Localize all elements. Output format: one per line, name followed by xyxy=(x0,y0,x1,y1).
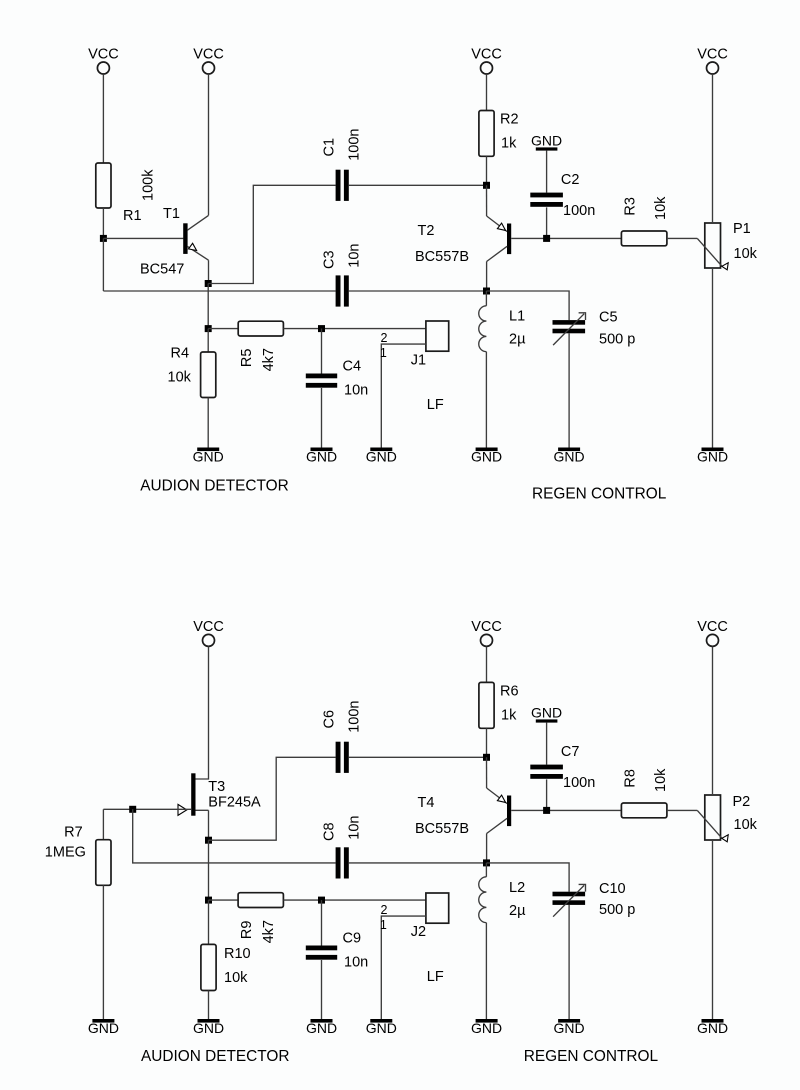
wire P2 bottom to ground xyxy=(712,840,714,1019)
svg-text:10k: 10k xyxy=(734,246,758,262)
svg-text:BC557B: BC557B xyxy=(415,821,469,837)
wire J2 pin 1 to ground xyxy=(381,916,426,1019)
svg-text:500 p: 500 p xyxy=(599,332,635,348)
svg-text:T3: T3 xyxy=(208,779,225,795)
capacitor C8 10n xyxy=(321,815,362,878)
svg-text:10n: 10n xyxy=(347,815,363,839)
variable capacitor C5 500 p xyxy=(553,310,636,348)
wire gate node down to C8 row xyxy=(133,809,336,863)
ground GND (C4) xyxy=(306,448,337,465)
wire source node to C6 riser xyxy=(209,757,336,840)
potentiometer P2 10k xyxy=(697,794,757,842)
power symbol VCC5 (T3 drain column) VCC xyxy=(193,619,224,647)
wire R10 top xyxy=(208,900,210,944)
wire T1 base xyxy=(103,237,183,239)
wire R7 bottom to ground xyxy=(102,885,104,1019)
svg-text:VCC: VCC xyxy=(471,619,502,635)
wire T3 gate row xyxy=(103,808,191,810)
power symbol VCC7 (P2 column) VCC xyxy=(697,619,728,647)
transistor T1 BC547 NPN xyxy=(140,206,209,278)
wire C5 bottom to ground xyxy=(568,333,570,447)
inductor L1 2µ xyxy=(479,306,526,352)
wire P1 bottom to ground xyxy=(712,268,714,448)
svg-text:VCC: VCC xyxy=(697,619,728,635)
wire C6 to R6 node xyxy=(349,756,487,758)
svg-text:C6: C6 xyxy=(321,710,337,729)
junction node R9/C9 xyxy=(318,897,325,904)
wire GND bar to C2 xyxy=(546,151,548,193)
wire VCC4 to P1 top xyxy=(712,74,714,223)
capacitor C6 100n xyxy=(321,701,362,773)
svg-text:C3: C3 xyxy=(321,250,337,269)
svg-text:AUDION DETECTOR: AUDION DETECTOR xyxy=(141,1048,290,1065)
svg-text:GND: GND xyxy=(554,1020,585,1036)
svg-text:2µ: 2µ xyxy=(509,332,526,348)
svg-text:GND: GND xyxy=(366,1020,397,1036)
wire node to R5 xyxy=(208,328,238,330)
svg-text:R1: R1 xyxy=(123,208,142,224)
svg-text:100n: 100n xyxy=(347,701,363,733)
svg-text:10k: 10k xyxy=(653,768,669,792)
junction gate node xyxy=(129,806,136,813)
ground GND (C9) xyxy=(306,1019,337,1036)
svg-text:1k: 1k xyxy=(501,708,517,724)
svg-text:C2: C2 xyxy=(561,172,580,188)
wire GND bar to C7 xyxy=(546,723,548,765)
junction node C7/base row xyxy=(543,807,550,814)
svg-text:BF245A: BF245A xyxy=(208,795,261,811)
wire C4 bottom to ground xyxy=(321,388,323,448)
resistor R10 10k xyxy=(201,944,251,990)
wire C8 to T4 collector node xyxy=(349,862,487,864)
wire C3 row left segment (base node to C3) xyxy=(103,290,335,292)
wire R9 to J2 pin 2 xyxy=(283,899,426,901)
svg-text:VCC: VCC xyxy=(88,46,119,62)
wire R5 to J1 pin 2 xyxy=(283,328,426,330)
svg-text:1: 1 xyxy=(380,346,387,360)
ground GND (C10) xyxy=(554,1019,585,1036)
power symbol VCC2 (T1 collector column) VCC xyxy=(193,46,224,74)
svg-text:GND: GND xyxy=(471,448,502,464)
ground GND (P2) xyxy=(697,1019,728,1036)
svg-text:C9: C9 xyxy=(343,931,362,947)
svg-text:100n: 100n xyxy=(347,129,363,161)
svg-text:VCC: VCC xyxy=(193,46,224,62)
ground GND (R7) xyxy=(88,1019,119,1036)
capacitor C7 100n xyxy=(530,744,595,791)
resistor R7 1MEG xyxy=(45,825,111,886)
svg-text:2: 2 xyxy=(381,331,388,345)
junction node R6/C6/T4 emitter xyxy=(483,754,490,761)
svg-text:R6: R6 xyxy=(500,684,519,700)
svg-text:P1: P1 xyxy=(733,221,751,237)
wire J1 pin 1 to ground xyxy=(381,344,426,447)
capacitor C9 10n xyxy=(306,931,368,971)
svg-text:4k7: 4k7 xyxy=(261,920,277,943)
junction node C2/base row xyxy=(543,235,550,242)
ground symbol GND above C2 (above capacitor) xyxy=(531,132,562,150)
resistor R1 100k xyxy=(96,163,157,224)
svg-text:R8: R8 xyxy=(623,769,639,788)
resistor R3 10k xyxy=(621,196,669,246)
wire R3 to P1 wiper xyxy=(667,237,697,239)
wire gate node to R7 xyxy=(102,809,104,839)
junction T2 collector node / L1 / C5 row xyxy=(483,288,490,295)
capacitor C1 100n xyxy=(321,129,362,201)
resistor R9 4k7 xyxy=(238,893,283,944)
svg-text:VCC: VCC xyxy=(471,46,502,62)
svg-text:10n: 10n xyxy=(344,383,368,399)
svg-text:10k: 10k xyxy=(734,817,758,833)
svg-text:L2: L2 xyxy=(509,880,525,896)
wire R2 bottom to node xyxy=(486,156,488,185)
capacitor C4 10n xyxy=(306,359,368,399)
wire emitter node down to R4/R5 node xyxy=(207,284,209,329)
svg-text:R2: R2 xyxy=(500,112,519,128)
wire T1 emitter to junction xyxy=(208,260,210,283)
wire R1 bottom to base node xyxy=(102,208,104,238)
connector J1 xyxy=(411,321,449,368)
svg-text:10k: 10k xyxy=(653,196,669,220)
svg-text:R9: R9 xyxy=(239,921,255,940)
svg-text:C10: C10 xyxy=(599,881,626,897)
ground GND (L2) xyxy=(471,1019,502,1036)
svg-text:2: 2 xyxy=(381,903,388,917)
transistor T4 BC557B PNP xyxy=(415,757,511,863)
svg-text:GND: GND xyxy=(697,1020,728,1036)
ground GND (J2 pin1) xyxy=(366,1019,397,1036)
junction node R5/C4 xyxy=(318,325,325,332)
svg-text:J2: J2 xyxy=(411,924,426,940)
inductor L2 2µ xyxy=(479,877,526,923)
wire collector node to C10 riser xyxy=(487,863,570,892)
transistor T3 BF245A JFET xyxy=(178,773,261,815)
wire T4 base row xyxy=(511,809,621,811)
wire collector node to C5 riser xyxy=(487,291,570,320)
wire C3 to T2 collector node xyxy=(349,290,487,292)
svg-text:T4: T4 xyxy=(418,795,435,811)
svg-text:4k7: 4k7 xyxy=(261,348,277,371)
svg-text:100n: 100n xyxy=(563,775,595,791)
svg-text:10k: 10k xyxy=(224,970,248,986)
ground GND (C5) xyxy=(554,448,585,465)
wire L2 bottom to ground xyxy=(485,923,487,1019)
wire source node down to R9/R10 node xyxy=(208,840,210,900)
svg-text:R7: R7 xyxy=(64,825,83,841)
wire C9 bottom to ground xyxy=(321,960,323,1019)
svg-text:GND: GND xyxy=(471,1020,502,1036)
junction T1 emitter node xyxy=(205,280,212,287)
junction node R4/R5 xyxy=(205,325,212,332)
svg-text:1k: 1k xyxy=(501,136,517,152)
wire node to R9 xyxy=(209,899,239,901)
ground symbol GND above C7 (above capacitor) xyxy=(531,704,562,722)
wire R4 bottom to ground xyxy=(207,398,209,448)
svg-text:VCC: VCC xyxy=(697,46,728,62)
svg-text:T2: T2 xyxy=(418,223,435,239)
svg-text:R5: R5 xyxy=(239,349,255,368)
wire C4 top xyxy=(321,329,323,374)
wire emitter node to C1 riser xyxy=(208,185,335,283)
svg-text:T1: T1 xyxy=(163,206,180,222)
resistor R6 1k xyxy=(479,682,519,728)
wire C7 bottom to base row xyxy=(546,779,548,810)
wire R10 bottom to ground xyxy=(208,991,210,1020)
wire VCC7 to P2 top xyxy=(712,647,714,796)
svg-text:GND: GND xyxy=(193,448,224,464)
svg-text:500 p: 500 p xyxy=(599,902,635,918)
svg-text:GND: GND xyxy=(193,1020,224,1036)
wire C1 to R2 node xyxy=(349,184,487,186)
svg-text:REGEN CONTROL: REGEN CONTROL xyxy=(532,486,667,503)
wire VCC1 to R1 top xyxy=(102,74,104,163)
svg-text:AUDION DETECTOR: AUDION DETECTOR xyxy=(140,477,289,494)
svg-text:GND: GND xyxy=(366,448,397,464)
svg-text:C1: C1 xyxy=(321,138,337,157)
wire C10 bottom to ground xyxy=(568,905,570,1019)
svg-text:GND: GND xyxy=(697,448,728,464)
capacitor C2 100n xyxy=(530,172,595,219)
svg-text:L1: L1 xyxy=(509,308,525,324)
junction node R2/C1/T2 emitter xyxy=(483,182,490,189)
wire R6 bottom to node xyxy=(486,728,488,757)
wire VCC6 to R6 xyxy=(486,647,488,683)
svg-text:C7: C7 xyxy=(561,744,580,760)
wire R4 top xyxy=(207,329,209,352)
variable capacitor C10 500 p xyxy=(553,881,636,918)
svg-text:100n: 100n xyxy=(563,203,595,219)
svg-text:R10: R10 xyxy=(224,946,251,962)
ground GND (R10) xyxy=(193,1019,224,1036)
wire base node down to C3 row xyxy=(102,238,104,291)
svg-text:GND: GND xyxy=(306,1020,337,1036)
svg-text:REGEN CONTROL: REGEN CONTROL xyxy=(524,1048,659,1065)
ground GND (J1 pin1) xyxy=(366,448,397,465)
svg-text:C5: C5 xyxy=(599,310,618,326)
power symbol VCC4 (P1 column) VCC xyxy=(697,46,728,74)
wire VCC2 to T1 collector xyxy=(208,74,210,215)
svg-text:1: 1 xyxy=(380,918,387,932)
svg-text:P2: P2 xyxy=(733,794,751,810)
resistor R4 10k xyxy=(168,346,216,398)
svg-text:C8: C8 xyxy=(321,822,337,841)
capacitor C3 10n xyxy=(321,243,362,306)
wire L2 top stub xyxy=(485,863,487,877)
potentiometer P1 10k xyxy=(697,221,757,270)
wire T3 source down to node xyxy=(208,810,210,840)
wire L1 bottom to ground xyxy=(485,352,487,448)
resistor R2 1k xyxy=(479,111,519,157)
wire C9 top xyxy=(321,900,323,945)
svg-text:GND: GND xyxy=(306,448,337,464)
ground GND (R4) xyxy=(193,448,224,465)
svg-text:1MEG: 1MEG xyxy=(45,845,86,861)
ground GND (L1) xyxy=(471,448,502,465)
power symbol VCC6 (R6 column) VCC xyxy=(471,619,502,647)
transistor T2 BC557B PNP xyxy=(415,185,511,291)
wire C2 bottom to base row xyxy=(546,207,548,238)
junction node R9/R10 xyxy=(205,897,212,904)
svg-text:2µ: 2µ xyxy=(509,903,526,919)
svg-text:BC547: BC547 xyxy=(140,262,184,278)
svg-text:GND: GND xyxy=(531,132,562,148)
wire T2 base row xyxy=(511,237,621,239)
connector J2 xyxy=(411,893,449,940)
svg-text:LF: LF xyxy=(427,969,444,985)
junction T3 source node xyxy=(205,837,212,844)
svg-text:R3: R3 xyxy=(623,197,639,216)
svg-text:GND: GND xyxy=(554,448,585,464)
svg-text:C4: C4 xyxy=(343,359,362,375)
junction base node T1 / R1 xyxy=(100,235,107,242)
svg-text:GND: GND xyxy=(531,704,562,720)
svg-text:R4: R4 xyxy=(171,346,190,362)
ground GND (P1) xyxy=(697,448,728,465)
resistor R8 10k xyxy=(621,768,669,818)
junction T4 collector node / L2 / C10 row xyxy=(483,859,490,866)
svg-text:100k: 100k xyxy=(141,169,157,201)
resistor R5 4k7 xyxy=(238,321,283,371)
wire R8 to P2 wiper xyxy=(667,809,697,811)
svg-text:GND: GND xyxy=(88,1020,119,1036)
svg-text:LF: LF xyxy=(427,397,444,413)
power symbol VCC3 (R2 column) VCC xyxy=(471,46,502,74)
wire L1 top stub xyxy=(485,291,487,306)
svg-text:10n: 10n xyxy=(344,955,368,971)
svg-text:VCC: VCC xyxy=(193,619,224,635)
svg-text:10k: 10k xyxy=(168,370,192,386)
svg-text:J1: J1 xyxy=(411,352,426,368)
wire VCC5 to T3 drain xyxy=(196,647,209,780)
svg-text:10n: 10n xyxy=(347,243,363,267)
wire VCC3 to R2 xyxy=(486,74,488,110)
power symbol VCC1 (R1 column) VCC xyxy=(88,46,119,74)
svg-text:BC557B: BC557B xyxy=(415,249,469,265)
